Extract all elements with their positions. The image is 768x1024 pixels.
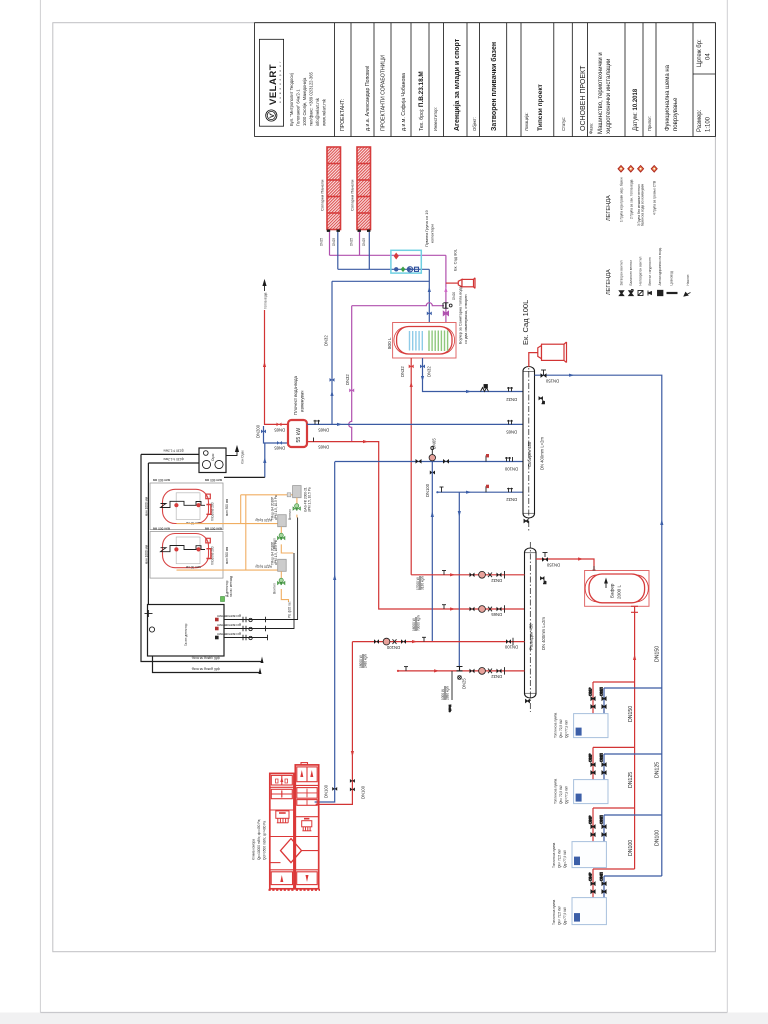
red tick after exchanger: [313, 438, 315, 442]
red valve under tank: [409, 365, 414, 369]
gas meter boiler2: [278, 559, 287, 571]
makeup valve: [330, 378, 335, 382]
wire: cabinet impulse line 2: [224, 553, 294, 629]
svg-text:ОВ3П: ОВ3П: [600, 815, 604, 824]
impulse line 1 end tick: [265, 617, 267, 622]
svg-text:Пумпна Група со 19: Пумпна Група со 19: [424, 209, 429, 247]
svg-text:info@velart.mk: info@velart.mk: [315, 97, 320, 126]
row3 fraction label: [359, 654, 368, 668]
blue valve on left bottom stub: [277, 441, 282, 445]
svg-text:DN25: DN25: [362, 238, 366, 246]
svg-text:DN32: DN32: [427, 366, 432, 377]
heat pump 3 valves: [589, 815, 607, 837]
collector drain tick: [524, 520, 528, 523]
blue drop valve: [332, 787, 337, 791]
wire: magenta drop x351.7: [349, 306, 352, 442]
wire: red stub to expansion vessel 80L: [446, 282, 459, 284]
svg-text:1:100: 1:100: [706, 116, 712, 132]
heat pump 2 valves: [589, 753, 607, 775]
expansion vessel 80L: [458, 278, 475, 289]
cabinet left tick: [145, 610, 153, 617]
tank green coil: [429, 331, 448, 352]
svg-text:70000 kg/h: 70000 kg/h: [417, 615, 421, 631]
red valve left of exchanger: [277, 423, 282, 427]
svg-text:ЛЕГЕНДА: ЛЕГЕНДА: [606, 195, 612, 221]
wire: gas below regulator: [296, 498, 298, 506]
heat pump 3 branch red: [593, 807, 635, 809]
svg-text:17000 W: 17000 W: [416, 577, 420, 590]
solar flow valve at tank: [443, 312, 448, 316]
legend diamond 4: [651, 166, 657, 173]
wire: blue DN65 row to collector: [307, 423, 523, 425]
cabinet left circle: [149, 627, 154, 632]
blue row arrow: [337, 423, 343, 426]
riser top arrow: [263, 281, 266, 292]
buffer vent arrow: [605, 579, 608, 588]
svg-text:Кон Оџак: Кон Оџак: [241, 450, 245, 464]
svg-text:Затворен вентил: Затворен вентил: [620, 260, 624, 285]
wire: blue cold feed tank drop: [423, 358, 524, 392]
solar panel column 2: [357, 147, 371, 230]
kv symbol 2: [541, 577, 548, 584]
svg-text:3130 kg/h: 3130 kg/h: [421, 576, 425, 590]
svg-text:Ѵ: Ѵ: [269, 112, 276, 118]
svg-text:Функционална шема на: Функционална шема на: [665, 64, 671, 131]
tank blue coil: [410, 331, 423, 351]
expansion vessel 100L: [538, 342, 567, 363]
tank label text: [459, 285, 469, 344]
svg-text:DN65: DN65: [274, 428, 285, 433]
wire: solar return header: [338, 268, 430, 270]
solar pump station box: [391, 250, 421, 273]
manifold drain tick: [526, 700, 530, 703]
magenta valve DN32: [349, 389, 354, 393]
svg-text:Автом.одзрачник на возд.: Автом.одзрачник на возд.: [658, 247, 662, 285]
svg-text:мин 30 см: мин 30 см: [186, 521, 201, 525]
svg-text:kv: kv: [543, 580, 547, 584]
legend diamond 2: [628, 166, 634, 173]
svg-text:ф130 f=1.2мм: ф130 f=1.2мм: [164, 457, 184, 461]
boiler 1 frame corner labels: [145, 478, 230, 516]
svg-text:мин 600 мм: мин 600 мм: [205, 478, 222, 482]
svg-text:колектори: колектори: [430, 224, 435, 243]
heat pump 2 branch blue: [604, 753, 662, 755]
AHU right fan section: [297, 767, 317, 782]
svg-text:Разводен 450: Разводен 450: [528, 623, 533, 650]
solar return valve at tank: [427, 312, 432, 316]
wire: dark connector to boiler area: [224, 476, 265, 478]
pump station red diamond: [394, 253, 399, 260]
boiler return arrow up: [263, 457, 266, 463]
wire: red DN32 row4: [398, 670, 525, 672]
flue small circle: [204, 451, 209, 456]
row left cap: [436, 491, 438, 493]
svg-text:Топлинска пумпа: Топлинска пумпа: [552, 842, 556, 868]
tank inner end arcs: [394, 327, 455, 354]
heat pump 1 label: [554, 712, 569, 738]
svg-text:Бојлер за Санитарна топла вода: Бојлер за Санитарна топла вода: [459, 285, 463, 344]
pump station green diamond: [401, 267, 406, 273]
svg-text:DN65: DN65: [506, 430, 517, 435]
svg-text:Qh= 72,5 kW: Qh= 72,5 kW: [559, 785, 563, 804]
blue valve on drop: [261, 430, 266, 434]
svg-text:ОВ4Р: ОВ4Р: [589, 872, 593, 881]
row2 black tick: [442, 605, 446, 609]
boiler 2 frame corner labels: [145, 527, 230, 565]
svg-text:2000 L: 2000 L: [617, 585, 622, 599]
gas valve 2 (green): [278, 533, 285, 539]
solar return arrow: [428, 287, 431, 293]
solar panel column 1: [327, 147, 341, 230]
AHU label: [252, 819, 267, 860]
wire: valve2 elbow right: [281, 544, 293, 553]
svg-text:ф80 довод на возд.: ф80 довод на возд.: [191, 667, 220, 671]
heat pump 1 branch blue: [604, 687, 662, 689]
svg-text:РЕ ф32 гас: РЕ ф32 гас: [288, 601, 292, 618]
heat pump 1 box: [574, 714, 608, 738]
svg-text:на гас мет.чад: на гас мет.чад: [229, 576, 233, 597]
impulse line 1 symbol: [243, 617, 252, 622]
wire: solar flow down to tank: [445, 255, 447, 322]
svg-text:Локација:: Локација:: [524, 113, 529, 132]
area below page: [0, 1013, 768, 1024]
legend 1 item texts: [620, 177, 657, 226]
svg-text:Инвеститор:: Инвеститор:: [433, 107, 438, 131]
svg-text:Вентил сигурносен: Вентил сигурносен: [648, 257, 652, 285]
filling arrow down: [458, 511, 461, 517]
svg-text:Вентил: Вентил: [273, 583, 277, 594]
legend diamond 1: [618, 166, 624, 173]
thermometer mark DN100 row: [486, 454, 489, 462]
svg-text:Прилог:: Прилог:: [647, 116, 652, 131]
wire: blue makeup header y281: [332, 280, 429, 282]
svg-text:Објект:: Објект:: [472, 117, 477, 131]
svg-text:DN32: DN32: [491, 674, 502, 679]
svg-text:мин 1000 мм: мин 1000 мм: [145, 497, 149, 516]
AHU fan arrows and marks: [276, 770, 314, 882]
svg-text:DN65: DN65: [318, 445, 329, 450]
svg-text:DN100: DN100: [361, 785, 366, 799]
heat pump 4 label: [552, 899, 567, 925]
flue big circle 1: [202, 460, 210, 468]
pump station label: [424, 209, 435, 247]
boiler 2 body: [161, 534, 211, 570]
svg-text:мин 600 мм: мин 600 мм: [153, 478, 170, 482]
wire: gas drop boiler2: [245, 495, 247, 570]
wire: blue DN150 from collector: [535, 375, 662, 876]
wire: blue DN100 drop to manifold row: [431, 462, 433, 642]
svg-text:мин 30 см: мин 30 см: [186, 565, 201, 569]
collector ticks DN32 row2: [507, 488, 513, 493]
ticks right of exchanger: [314, 420, 321, 425]
svg-text:www.velart.mk: www.velart.mk: [322, 98, 327, 126]
svg-text:Ек. Сад 100L: Ек. Сад 100L: [521, 300, 530, 345]
svg-text:поврзување: поврзување: [673, 97, 679, 131]
boiler 2 gray frame: [150, 532, 223, 579]
heat pump 1 branch red: [593, 681, 635, 683]
svg-text:Гасен детектор: Гасен детектор: [184, 623, 188, 646]
impulse line 1 source square: [215, 618, 219, 622]
AHU left bottom box: [271, 872, 292, 885]
row1 pump cluster: [470, 571, 505, 579]
magenta 3way tee at tank: [442, 303, 444, 308]
svg-text:Цевковод: Цевковод: [670, 271, 674, 285]
svg-text:Цртеж бр:: Цртеж бр:: [697, 39, 703, 67]
svg-text:DN150: DN150: [545, 379, 559, 384]
makeup arrow up: [330, 391, 333, 397]
tee valve down DN100: [430, 471, 435, 475]
svg-text:Qot=9500 m3/h; sp=400 Pa: Qot=9500 m3/h; sp=400 Pa: [263, 821, 267, 860]
chimney arrow: [226, 447, 239, 456]
svg-text:DN150: DN150: [628, 706, 634, 722]
svg-text:DN65: DN65: [432, 438, 437, 449]
wire: blue makeup drop x332: [331, 281, 333, 424]
wire: red to expansion vessel 100L: [529, 353, 538, 367]
impulse line 3 symbol: [243, 635, 252, 640]
gas valve 1 (green): [293, 504, 300, 510]
pump station square symbol: [415, 267, 419, 271]
heat pump 1 valves: [589, 687, 607, 709]
svg-text:2 Група за сан. топла вода: 2 Група за сан. топла вода: [629, 179, 633, 219]
svg-text:Оџак: Оџак: [211, 453, 215, 461]
svg-text:DN65: DN65: [318, 428, 329, 433]
row1 fraction label: [416, 576, 425, 590]
svg-text:Наклон: Наклон: [686, 274, 690, 285]
svg-text:Топлинска пумпа: Топлинска пумпа: [552, 899, 556, 925]
boiler tank 800L outer: [393, 323, 456, 359]
drain line from row4: [449, 671, 453, 712]
cold feed arrow right: [466, 390, 472, 393]
heat pump 2 label: [554, 778, 569, 804]
svg-text:DN32: DN32: [506, 497, 517, 502]
row2 fraction label: [412, 615, 421, 631]
svg-text:со два изменувача, отворен: со два изменувача, отворен: [464, 295, 468, 344]
boiler 1 body: [161, 489, 211, 525]
svg-text:Тех. број: П.В.23.18.М: Тех. број: П.В.23.18.М: [418, 71, 425, 131]
wire: meter1 to valve2: [280, 527, 282, 535]
svg-text:Бафер: Бафер: [610, 583, 615, 598]
heat pump 4 box: [572, 898, 606, 925]
svg-text:мин 1000 мм: мин 1000 мм: [145, 545, 149, 564]
wire: meter2 to valve3: [280, 571, 282, 580]
impulse line 3 end tick: [267, 635, 269, 640]
DN150 red arrow: [578, 557, 584, 560]
svg-text:DN65: DN65: [491, 612, 502, 617]
AHU heat recovery diamond: [281, 839, 302, 863]
row3 arrow: [412, 640, 418, 643]
heat pump 4 branch red: [593, 868, 635, 870]
svg-text:тел/факс: +389 02/3122-365: тел/факс: +389 02/3122-365: [309, 71, 314, 126]
panel 2 port connectors: [358, 230, 371, 232]
svg-text:НД20 БрЦу: НД20 БрЦу: [255, 565, 272, 569]
wire: cabinet impulse line 3: [224, 637, 268, 639]
svg-text:1000 Скопје, Македонија: 1000 Скопје, Македонија: [302, 77, 307, 126]
row4 left cap: [397, 670, 399, 672]
DN25 filling tee symbols: [457, 667, 463, 680]
svg-text:VELART: VELART: [268, 64, 279, 105]
legend symbol: check valve: [638, 291, 643, 296]
page left edge: [39, 0, 41, 1013]
gas regulator box: [293, 486, 302, 498]
svg-text:Ек. Сад 80L: Ек. Сад 80L: [453, 248, 458, 271]
regulator fitting: [287, 493, 291, 497]
svg-text:Qg=77,9 kW: Qg=77,9 kW: [565, 786, 569, 804]
svg-text:Плочест вода-вода: Плочест вода-вода: [293, 375, 298, 415]
svg-text:до гасен вентил: до гасен вентил: [217, 632, 241, 636]
wire: gas line boiler1: [177, 523, 278, 525]
svg-text:DN25: DN25: [332, 238, 336, 246]
svg-text:Статус:: Статус:: [561, 117, 566, 131]
svg-text:DN200: DN200: [256, 424, 261, 438]
svg-text:ПРОЕКТАНТИ СОРАБОТНИЦИ: ПРОЕКТАНТИ СОРАБОТНИЦИ: [381, 55, 387, 131]
wire: solar return panel2 drop: [368, 232, 370, 269]
svg-text:Топлинска пумпа: Топлинска пумпа: [554, 778, 558, 804]
svg-text:Vitodens 200: Vitodens 200: [211, 502, 215, 521]
svg-text:Qg=77,9 kW: Qg=77,9 kW: [565, 720, 569, 738]
svg-text:DN100: DN100: [386, 645, 400, 650]
buffer bottom fitting: [631, 606, 638, 612]
drawing frame: [53, 23, 716, 952]
exchanger label: [293, 375, 305, 415]
wire: flue line 1: [141, 453, 199, 455]
wire: red DN100 supply drop to AHU: [316, 642, 353, 805]
wire: flue line 2: [148, 462, 199, 464]
return collector (Собирен) body: [523, 360, 535, 532]
wire: red DN150 to buffer: [536, 559, 594, 571]
DN150 red valve: [542, 553, 548, 562]
AHU left humidifier: [276, 811, 289, 823]
svg-text:DN 400mm L=2m: DN 400mm L=2m: [541, 617, 546, 650]
svg-text:д.и.м. Софија Чобанова: д.и.м. Софија Чобанова: [401, 73, 407, 131]
svg-text:Qg=77,9 kW: Qg=77,9 kW: [563, 907, 567, 925]
svg-text:ОВ2П: ОВ2П: [600, 753, 604, 762]
meter2 label: [271, 540, 279, 565]
svg-text:DN150: DN150: [546, 563, 560, 568]
svg-text:ОСНОВЕН ПРОЕКТ: ОСНОВЕН ПРОЕКТ: [580, 65, 587, 131]
kv symbol: [539, 397, 546, 404]
svg-text:dPM 1.5, 10.5 Pa: dPM 1.5, 10.5 Pa: [308, 487, 312, 512]
svg-text:НД20 БрЦу: НД20 БрЦу: [255, 518, 272, 522]
svg-text:DN100: DN100: [324, 784, 329, 798]
row3 black tick: [422, 637, 426, 641]
svg-text:Qh= 72,5 kW: Qh= 72,5 kW: [558, 906, 562, 925]
wire: cabinet drop lines: [153, 656, 261, 673]
red main arrow: [633, 654, 636, 660]
AHU right coil1: [297, 788, 317, 799]
AHU right column: [295, 765, 318, 889]
row1 arrow: [450, 573, 456, 576]
wire: red DN100 row3: [352, 641, 524, 643]
row arrow: [466, 491, 472, 494]
wire: red DHW from tank down: [410, 358, 412, 575]
control cabinet box: [148, 605, 225, 657]
collector ticks DN100 row: [505, 457, 513, 462]
wire: blue DN100 return from AHU: [315, 462, 335, 803]
svg-text:DN100: DN100: [504, 467, 518, 472]
row4 black tick: [404, 667, 408, 671]
svg-text:до гасен вентил: до гасен вентил: [217, 623, 241, 627]
svg-text:DN125: DN125: [628, 772, 634, 788]
wire: blue short drop left of exchanger: [264, 426, 289, 443]
svg-text:DN65: DN65: [274, 446, 285, 451]
heat pump 3 box: [572, 842, 606, 868]
svg-text:4 Група за греење СТВ: 4 Група за греење СТВ: [653, 181, 657, 215]
wire: solar return down to tank: [428, 269, 430, 322]
svg-text:Неповратен вентил: Неповратен вентил: [639, 256, 643, 285]
legend diamond 3: [638, 166, 644, 173]
blue arrow down: [421, 376, 424, 382]
svg-text:д.и.а. Александар Поповиќ: д.и.а. Александар Поповиќ: [365, 65, 371, 131]
flue collector box: [199, 448, 226, 473]
svg-text:2880 kg/h: 2880 kg/h: [446, 686, 450, 700]
svg-text:DN100: DN100: [655, 830, 661, 846]
legend symbol: slope arrow: [684, 292, 691, 296]
heat pump 4 valves: [589, 872, 607, 894]
legend symbol: shutoff valve: [619, 291, 624, 296]
panel 1 port connectors: [327, 230, 340, 232]
AHU unit body: [270, 763, 319, 889]
AHU left fan section: [271, 775, 292, 785]
wire: solar flow header: [330, 254, 446, 256]
svg-text:Клима комора: Клима комора: [252, 839, 256, 860]
red drop arrow: [351, 751, 354, 757]
heat pump 2 branch red: [593, 746, 635, 748]
red row arrow: [363, 440, 369, 443]
wire: gas service entry: [281, 589, 288, 602]
wire: solar flow panel2 drop: [359, 232, 361, 255]
wire: cabinet impulse line 1: [224, 518, 298, 620]
svg-text:DN25: DN25: [462, 678, 467, 689]
svg-text:1 Група која прави загр. базен: 1 Група која прави загр. базен: [620, 177, 624, 222]
thermometer mark DN32 row: [486, 485, 489, 493]
boiler tank 800L body: [397, 327, 452, 355]
svg-text:Qg=77,9 kW: Qg=77,9 kW: [563, 850, 567, 868]
svg-text:DN32: DN32: [345, 374, 350, 385]
AHU right bottom box: [297, 872, 318, 885]
svg-text:DN32: DN32: [324, 335, 329, 346]
svg-text:Машинство, термотехнички и: Машинство, термотехнички и: [598, 52, 604, 134]
AHU right top cap: [301, 763, 308, 765]
flue big circle 2: [215, 460, 223, 468]
svg-text:DN32: DN32: [506, 397, 517, 402]
pump station blue diamond: [394, 267, 398, 271]
impulse labels: [217, 614, 241, 636]
svg-text:ф130 f=1.2мм: ф130 f=1.2мм: [164, 449, 184, 453]
buffer tank 2000L outer: [585, 571, 649, 607]
svg-text:dPM 1.5, 10.5 Pa: dPM 1.5, 10.5 Pa: [274, 495, 278, 520]
svg-text:Qp=10000 m3/h; dp=450 Pa;: Qp=10000 m3/h; dp=450 Pa;: [257, 819, 261, 860]
wire: gas below valve1: [296, 515, 298, 518]
row4 arrow: [434, 669, 440, 672]
svg-text:ОВ3Р: ОВ3Р: [589, 815, 593, 824]
wire: solar flow panel1 drop: [329, 232, 331, 255]
impulse line 2 symbol: [243, 626, 252, 631]
buffer inner arcs: [585, 575, 648, 602]
wire: left enclosure vertical 2: [147, 463, 149, 605]
red riser arrow: [263, 362, 266, 368]
wire: boiler header to exchanger dark: [223, 476, 225, 478]
svg-text:16000 W: 16000 W: [412, 618, 416, 631]
plate heat exchanger 55kW: [288, 420, 307, 447]
black stub on row: [440, 487, 444, 492]
row3 pump cluster left: [374, 638, 406, 645]
collector side ticks DN32: [507, 387, 513, 392]
solar flow arrow: [444, 287, 447, 293]
AHU right humidifier: [302, 819, 312, 831]
impulse line 3 source square: [215, 636, 219, 640]
legend symbol: balancing valve: [629, 290, 634, 296]
heat pump 4 branch blue: [604, 875, 662, 877]
